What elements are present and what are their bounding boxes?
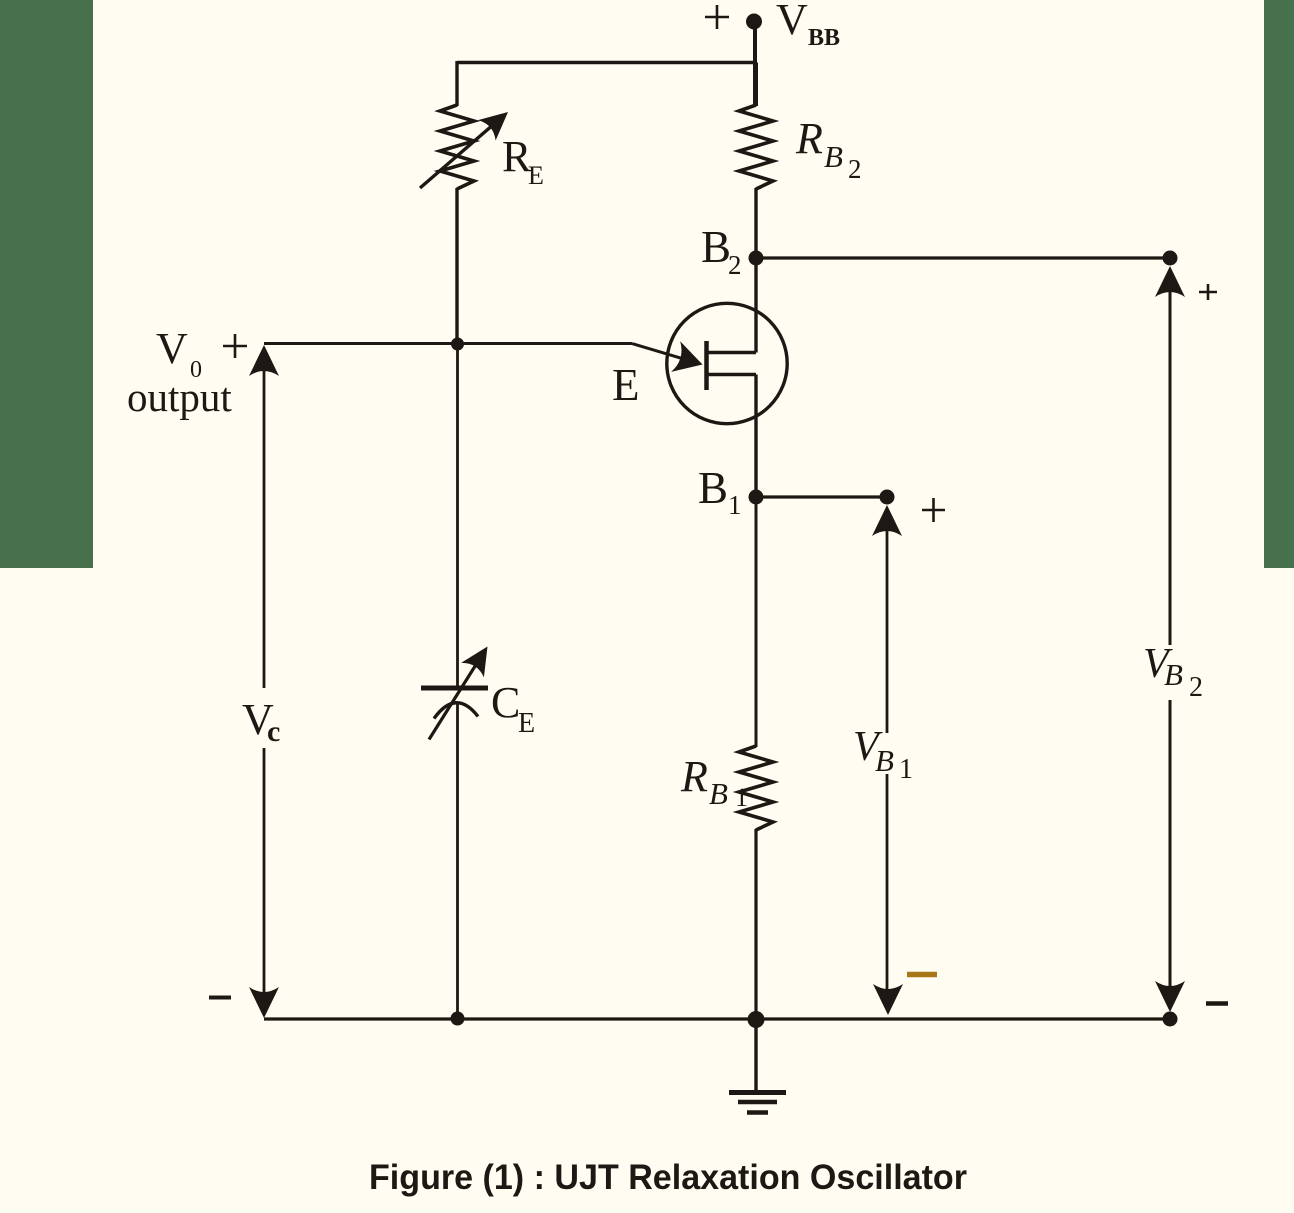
- svg-text:R: R: [680, 752, 708, 801]
- voltage arrow VC shaft upper: [263, 369, 266, 688]
- svg-text:2: 2: [728, 250, 742, 280]
- svg-text:2: 2: [848, 154, 862, 184]
- transistor UJT base bar: [704, 341, 709, 390]
- svg-text:2: 2: [1189, 672, 1203, 703]
- capacitor CE arrow shaft: [429, 663, 477, 740]
- ground bus wire bottom horizontal: [264, 1017, 1170, 1020]
- junction dot ground: [748, 1011, 765, 1028]
- svg-text:B: B: [1164, 657, 1183, 692]
- svg-text:output: output: [127, 374, 232, 420]
- capacitor CE top lead: [456, 344, 459, 686]
- plus VB2: [1199, 284, 1217, 300]
- plus V0: [223, 334, 247, 358]
- transistor UJT circle: [667, 303, 787, 423]
- voltage arrow VC bottom arrowhead: [249, 987, 279, 1018]
- junction dot CE bottom: [451, 1012, 465, 1026]
- svg-text:B: B: [701, 222, 731, 272]
- wire CE to ground bus: [456, 703, 459, 1019]
- svg-text:B: B: [824, 139, 843, 174]
- svg-text:C: C: [491, 678, 520, 727]
- capacitor CE arrowhead: [461, 639, 499, 677]
- capacitor CE curved plate: [434, 703, 478, 719]
- junction dot VB2 bottom: [1163, 1012, 1178, 1027]
- resistor RE wiper arrow shaft: [420, 124, 494, 188]
- node top of VB2 arrow dot: [1163, 251, 1178, 266]
- transistor UJT B1 lead horizontal: [707, 373, 757, 376]
- minus VB2: [1206, 1001, 1228, 1006]
- node B2 dot: [749, 251, 764, 266]
- node top of VB1 arrow dot: [880, 490, 895, 505]
- voltage arrow VC top arrowhead: [249, 345, 279, 376]
- wire RB2 to B2: [754, 188, 757, 258]
- svg-text:R: R: [795, 114, 823, 163]
- emitter arrowhead: [671, 341, 707, 380]
- voltage arrow VB2 down arrowhead: [1155, 981, 1185, 1012]
- svg-text:B: B: [875, 743, 894, 778]
- voltage arrow VB1 down arrowhead: [873, 984, 903, 1015]
- junction node E dot: [451, 338, 464, 351]
- capacitor CE top plate: [421, 686, 488, 691]
- svg-text:V: V: [156, 324, 188, 373]
- node VBB dot: [746, 14, 762, 30]
- wire VBB stem: [753, 21, 757, 104]
- wire B2 to VB2: [756, 256, 1170, 259]
- svg-text:V: V: [776, 0, 808, 44]
- wire RE to node E: [455, 188, 458, 345]
- svg-text:B: B: [709, 776, 728, 811]
- svg-text:E: E: [612, 360, 640, 410]
- resistor RB1 zigzag: [739, 746, 773, 830]
- ground symbol stem: [754, 1019, 757, 1091]
- wire RB1 to ground bus: [754, 829, 757, 1019]
- wire RE top lead: [455, 61, 458, 106]
- resistor RE zigzag: [440, 105, 474, 189]
- ground symbol bar2: [738, 1100, 777, 1105]
- resistor RB2 zigzag: [739, 105, 773, 189]
- voltage arrow VB1 shaft lower: [886, 774, 889, 993]
- svg-text:1: 1: [728, 490, 742, 520]
- minus VC: [209, 996, 231, 1000]
- wire output line: [264, 342, 632, 345]
- plus VBB: [705, 5, 729, 29]
- resistor RB2 top lead: [754, 63, 758, 107]
- voltage arrow VB2 up arrowhead: [1155, 266, 1185, 297]
- svg-text:E: E: [528, 161, 544, 190]
- svg-text:Figure (1) : UJT Relaxation Os: Figure (1) : UJT Relaxation Oscillator: [369, 1158, 967, 1197]
- wire B1 to VB1: [756, 495, 887, 498]
- minus VB1: [907, 972, 937, 978]
- ground symbol bar3: [747, 1110, 768, 1115]
- wire B2 vertical: [754, 256, 757, 353]
- wire top horizontal: [457, 61, 756, 64]
- svg-text:BB: BB: [808, 25, 840, 51]
- svg-text:B: B: [698, 463, 728, 513]
- svg-text:E: E: [518, 708, 535, 739]
- wire B1 to RB1: [755, 497, 758, 747]
- voltage arrow VB1 up arrowhead: [872, 505, 902, 536]
- transistor UJT B2 lead horizontal: [707, 351, 757, 354]
- voltage arrow VB2 shaft upper: [1169, 290, 1172, 645]
- voltage arrow VC shaft lower: [263, 748, 266, 995]
- svg-text:1: 1: [735, 783, 748, 812]
- node B1 dot: [749, 490, 764, 505]
- svg-text:1: 1: [899, 754, 913, 785]
- wire B1 vertical: [754, 375, 757, 498]
- resistor RE wiper arrowhead: [478, 102, 517, 141]
- wire emitter diagonal: [632, 344, 684, 360]
- voltage arrow VB1 shaft upper: [886, 530, 889, 733]
- plus VB1: [922, 498, 945, 522]
- svg-text:c: c: [267, 715, 280, 748]
- voltage arrow VB2 shaft lower: [1169, 700, 1172, 990]
- ground symbol bar1: [729, 1090, 786, 1095]
